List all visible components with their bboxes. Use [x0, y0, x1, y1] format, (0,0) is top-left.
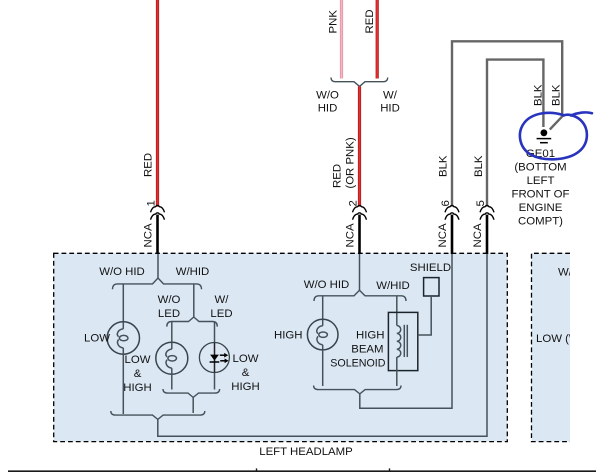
svg-text:COMPT): COMPT) [518, 216, 563, 228]
shield box [424, 278, 439, 296]
svg-text:NCA: NCA [437, 223, 449, 247]
svg-text:FRONT OF: FRONT OF [511, 189, 569, 201]
svg-text:6: 6 [440, 200, 452, 206]
label LOW & HIGH (left bulb) [123, 354, 151, 394]
svg-text:W/O HID: W/O HID [558, 267, 596, 279]
wire: branch to HIGH bulb [322, 296, 324, 320]
wire: pin1 into box [157, 254, 159, 278]
svg-text:LOW (W: LOW (W [536, 333, 580, 345]
ground GE01 [537, 129, 552, 142]
svg-text:RED: RED [364, 9, 376, 33]
label LOW & HIGH (LED) [231, 353, 259, 393]
svg-text:LED: LED [158, 308, 180, 320]
svg-text:W/HID: W/HID [376, 280, 410, 292]
svg-text:&: & [134, 368, 142, 380]
svg-text:NCA: NCA [143, 223, 155, 247]
bulb LOW&HIGH (middle) [156, 342, 188, 374]
brace: PNK/RED application merge [331, 78, 388, 87]
svg-text:RED: RED [332, 164, 344, 188]
wire: BLK from pin 5 to ground [487, 60, 543, 207]
svg-text:HIGH: HIGH [356, 330, 384, 342]
wire: solenoid coil to merge [396, 357, 398, 386]
svg-text:W/O HID: W/O HID [99, 266, 145, 278]
wire: merge down and across to pin 5 [158, 254, 487, 436]
svg-text:BLK: BLK [473, 155, 485, 177]
svg-text:ENGINE: ENGINE [519, 202, 563, 214]
bulb LOW (left) [107, 322, 139, 354]
label HIGH BEAM SOLENOID [330, 330, 386, 370]
table rule at bottom [8, 470, 596, 472]
svg-text:W/: W/ [215, 294, 230, 306]
wire: inner merge stub [192, 397, 194, 413]
svg-text:HID: HID [380, 102, 400, 114]
brace: W/O LED / W LED split [167, 317, 218, 327]
wire: middle bulb to inner merge [171, 374, 173, 389]
svg-text:W/O: W/O [158, 294, 181, 306]
wire: branch to LED [214, 322, 216, 344]
svg-text:1: 1 [146, 200, 158, 206]
wire: branch to middle bulb [171, 322, 173, 343]
svg-text:5: 5 [475, 200, 487, 206]
right headlamp box (dashed, clipped at right) [532, 253, 571, 441]
brace: left section merge [111, 411, 205, 419]
svg-text:NCA: NCA [472, 223, 484, 247]
bulb HIGH [307, 319, 338, 350]
svg-text:BLK: BLK [532, 84, 544, 106]
svg-text:2: 2 [348, 200, 360, 206]
solenoid HIGH BEAM [388, 312, 417, 370]
LED lamp [199, 343, 229, 373]
left headlamp box (dashed, light blue) [54, 253, 508, 441]
wire: HIGH bulb to merge [322, 350, 324, 386]
wire: PNK feed [340, 0, 343, 79]
svg-text:W/: W/ [383, 90, 398, 102]
svg-text:W/O: W/O [316, 90, 339, 102]
svg-text:BEAM: BEAM [351, 344, 383, 356]
wire: pin2 into box [359, 254, 361, 290]
wire: right branch to LED split [193, 284, 195, 318]
svg-text:PNK: PNK [328, 10, 340, 34]
wire: LED to inner merge [214, 373, 216, 390]
brace: LED branches merge [163, 389, 220, 397]
svg-text:LED: LED [210, 308, 232, 320]
wire: shield to solenoid [418, 296, 431, 335]
label W/O HID (right headlamp, clipped) [536, 267, 596, 346]
svg-text:HID: HID [318, 102, 338, 114]
svg-text:NCA: NCA [345, 223, 357, 247]
svg-text:(BOTTOM: (BOTTOM [514, 162, 566, 174]
table tick 2 [389, 468, 391, 471]
svg-text:W/O HID: W/O HID [304, 279, 350, 291]
svg-text:LOW: LOW [233, 353, 259, 365]
wire: LOW bulb to merge [122, 354, 124, 414]
label GE01 location [511, 148, 569, 228]
svg-text:LEFT: LEFT [527, 175, 555, 187]
svg-text:HIGH: HIGH [274, 330, 302, 342]
svg-text:&: & [242, 367, 250, 379]
brace: W/O HID / W/HID split (left section) [113, 278, 202, 289]
svg-text:HIGH: HIGH [123, 382, 151, 394]
wire: BLK from pin 6 to ground run [452, 41, 562, 206]
svg-text:SHIELD: SHIELD [410, 262, 451, 274]
annotation: blue hand-drawn circle [520, 112, 592, 159]
brace: W/O HID / W/HID split (middle section) [314, 290, 406, 301]
wire: RED (OR PNK) to pin 2 [358, 86, 361, 206]
svg-text:BLK: BLK [437, 155, 449, 177]
table tick 1 [256, 468, 258, 471]
connector NCA pin 6 [437, 200, 459, 254]
wire: left branch to LOW bulb [122, 284, 124, 322]
svg-text:W/HID: W/HID [176, 266, 210, 278]
svg-text:SOLENOID: SOLENOID [330, 357, 386, 369]
svg-text:LOW: LOW [125, 354, 151, 366]
wire: branch to solenoid [396, 296, 398, 326]
svg-text:HIGH: HIGH [231, 381, 259, 393]
svg-text:RED: RED [143, 153, 155, 177]
brace: middle section merge [314, 386, 401, 394]
connector NCA pin 1 [143, 200, 165, 254]
wire: merge to pin 6 [360, 254, 452, 408]
svg-text:LOW: LOW [84, 333, 110, 345]
wire: RED feed [376, 0, 379, 79]
wire: RED feed to pin 1 [156, 0, 159, 207]
svg-text:BLK: BLK [550, 84, 562, 106]
connector NCA pin 2 [345, 200, 367, 254]
connector NCA pin 5 [472, 200, 494, 254]
svg-text:(OR PNK): (OR PNK) [345, 137, 357, 188]
svg-text:LEFT HEADLAMP: LEFT HEADLAMP [259, 446, 352, 458]
